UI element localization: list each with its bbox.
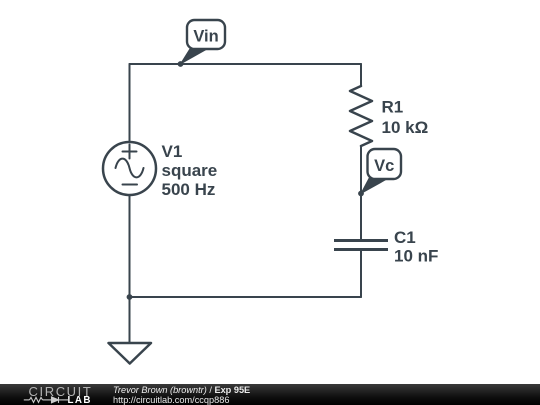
svg-text:R1: R1 bbox=[382, 98, 404, 117]
wire ground stub bbox=[129, 297, 131, 343]
wire right vertical upper bbox=[360, 64, 362, 86]
flag Vc wedge bbox=[361, 178, 386, 194]
svg-text:10 nF: 10 nF bbox=[394, 247, 438, 266]
wire bottom horizontal bbox=[130, 296, 362, 298]
wire left vertical upper bbox=[129, 64, 131, 142]
svg-text:10 kΩ: 10 kΩ bbox=[382, 118, 429, 137]
resistor R1 bbox=[350, 86, 372, 146]
svg-text:LAB: LAB bbox=[68, 395, 92, 405]
svg-text:C1: C1 bbox=[394, 228, 416, 247]
label C1 bbox=[394, 228, 438, 266]
wire top horizontal bbox=[130, 63, 362, 65]
flag Vc box bbox=[368, 149, 402, 179]
flag Vin wedge bbox=[181, 48, 209, 64]
label V1 bbox=[162, 142, 218, 199]
wire right vertical lower bbox=[360, 251, 362, 297]
wire left vertical lower bbox=[129, 195, 131, 297]
svg-text:500 Hz: 500 Hz bbox=[162, 180, 216, 199]
label R1 bbox=[382, 98, 429, 138]
node dot bottom bbox=[127, 294, 133, 300]
circuitlab logo bbox=[18, 384, 96, 405]
flag Vin box bbox=[187, 20, 225, 49]
svg-text:square: square bbox=[162, 161, 218, 180]
voltage source V1 bbox=[103, 142, 156, 195]
footer bar bbox=[0, 384, 540, 405]
svg-text:Vc: Vc bbox=[374, 157, 394, 175]
wire right vertical middle bbox=[360, 146, 362, 239]
node dot top bbox=[178, 61, 184, 67]
node dot Vc bbox=[358, 191, 364, 197]
capacitor C1 bbox=[334, 241, 388, 250]
svg-text:Vin: Vin bbox=[193, 28, 218, 46]
svg-text:V1: V1 bbox=[162, 142, 183, 161]
ground bbox=[109, 343, 152, 364]
